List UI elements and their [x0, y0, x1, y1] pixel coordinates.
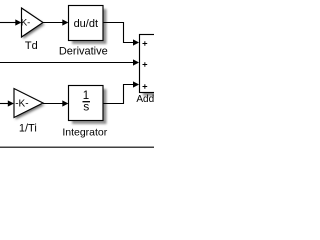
plus sign port 2 — [143, 62, 148, 67]
arrowhead into Add input 2 — [133, 59, 139, 65]
arrowhead into Add input 1 — [133, 39, 139, 45]
svg-text:s: s — [83, 100, 89, 114]
Integrator block 1/s — [69, 86, 107, 125]
wire Integrator to Add input 3 — [103, 85, 134, 104]
wire into gain 1/Ti — [0, 103, 9, 105]
svg-text:-K-: -K- — [15, 99, 28, 110]
gain 1/Ti (triangle with -K-) — [14, 89, 45, 120]
svg-text:Integrator: Integrator — [62, 126, 107, 138]
wire bottom border line — [0, 146, 155, 148]
svg-text:Derivative: Derivative — [59, 46, 108, 58]
arrowhead into gain 1/Ti — [8, 100, 14, 106]
plus sign port 1 — [143, 41, 148, 46]
svg-text:1/Ti: 1/Ti — [19, 123, 37, 135]
Add block (sum, cut off at right edge) — [140, 35, 170, 97]
plus sign port 3 — [143, 84, 148, 89]
wire gain Td to Derivative — [43, 22, 63, 24]
arrowhead into gain Td — [15, 19, 21, 25]
wire gain 1/Ti to Integrator — [43, 103, 63, 105]
Derivative block du/dt — [69, 6, 107, 45]
gain Td (triangle with K-) — [18, 8, 45, 39]
arrowhead into Derivative — [62, 19, 68, 25]
svg-text:-K-: -K- — [18, 18, 31, 29]
svg-text:Td: Td — [25, 40, 38, 52]
svg-text:du/dt: du/dt — [74, 18, 98, 30]
wire proportional path to Add input 2 — [0, 62, 134, 64]
wire into gain Td — [0, 22, 16, 24]
wire Derivative to Add input 1 — [103, 23, 134, 43]
arrowhead into Add input 3 — [133, 81, 139, 87]
svg-text:Add: Add — [136, 94, 154, 105]
arrowhead into Integrator — [62, 100, 68, 106]
